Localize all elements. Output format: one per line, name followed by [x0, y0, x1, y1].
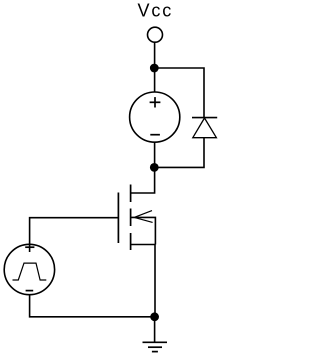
svg-text:Vcc: Vcc [138, 0, 174, 20]
junction node 1 [150, 64, 159, 73]
nmos source channel segment [130, 233, 132, 250]
wire Vcc terminal to node 1 [154, 42, 156, 68]
pulse source minus marking [26, 290, 34, 292]
nmos drain channel segment [130, 185, 132, 203]
voltage source plus marking [150, 97, 161, 107]
nmos source lead [131, 244, 156, 246]
voltage source circle [130, 92, 180, 142]
junction node 3 [150, 312, 159, 321]
nmos body channel segment [130, 209, 132, 227]
nmos body arrow [135, 211, 153, 223]
wire node 1 to source top [154, 68, 156, 92]
wire pulse source to node 3 [30, 295, 155, 317]
wire diode to node 2 [154, 138, 204, 168]
wire source bottom to node 2 [154, 142, 156, 167]
nmos body connection wire [131, 217, 156, 244]
diode cathode bar [192, 117, 217, 119]
ground symbol [143, 342, 168, 351]
gate wire from pulse source [30, 218, 119, 252]
junction node 2 [150, 163, 159, 172]
voltage source minus marking [150, 134, 160, 136]
wire node 3 to ground [154, 317, 156, 343]
wire source to node 3 [154, 245, 156, 317]
pulse source plus marking [25, 246, 34, 248]
diode anode triangle [193, 118, 217, 138]
wire node 1 to diode top [154, 68, 204, 118]
wire node 2 to drain lead [131, 167, 155, 193]
nmos gate bar [117, 193, 119, 244]
pulse waveform symbol [13, 263, 47, 280]
Vcc terminal circle [148, 27, 163, 42]
pulse source circle [4, 244, 54, 294]
